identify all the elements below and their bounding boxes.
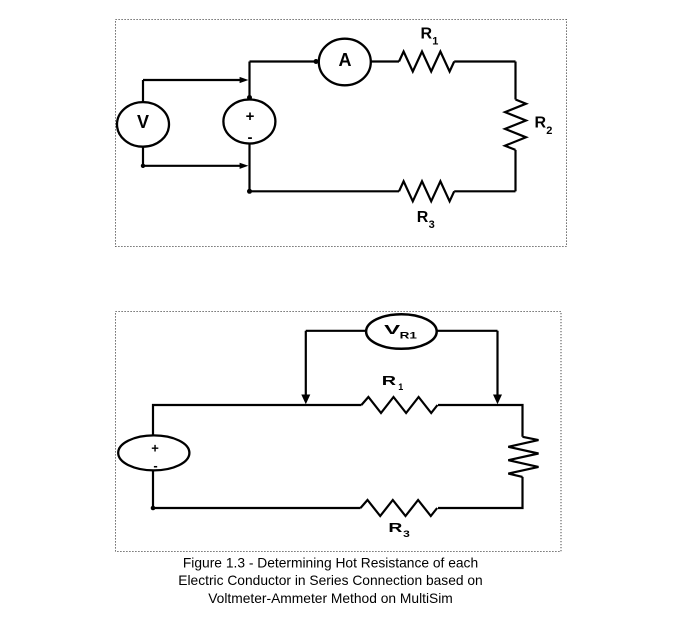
svg-text:V: V — [137, 112, 149, 132]
resistor R2 vertical zigzag bottom circuit — [508, 437, 538, 477]
svg-text:R: R — [421, 26, 433, 43]
wire ammeter to R1 — [371, 60, 399, 62]
ammeter A circle — [319, 39, 371, 86]
junction dot V bottom corner — [141, 164, 145, 168]
resistor R2 zigzag vertical — [505, 100, 526, 150]
svg-text:Electric Conductor in Series C: Electric Conductor in Series Connection … — [178, 573, 482, 588]
svg-text:-: - — [248, 129, 253, 146]
svg-text:+: + — [246, 108, 255, 125]
wire bottom right — [454, 190, 515, 192]
dashed border box top figure — [116, 20, 567, 247]
dashed border box bottom figure — [116, 312, 562, 552]
resistor R3 zigzag bottom circuit — [361, 500, 438, 516]
svg-text:R: R — [382, 373, 397, 388]
svg-text:V: V — [384, 322, 401, 337]
wire top: source node to ammeter — [250, 60, 320, 62]
svg-text:-: - — [153, 458, 157, 473]
svg-text:2: 2 — [546, 125, 552, 137]
svg-text:Voltmeter-Ammeter Method on Mu: Voltmeter-Ammeter Method on MultiSim — [208, 591, 453, 606]
wire VR1 left horizontal — [306, 330, 366, 332]
wire top left loop — [153, 405, 361, 436]
voltmeter VR1 ellipse — [366, 314, 437, 349]
wire source bottom vertical — [248, 144, 250, 192]
wire arrow line V-top to source node — [143, 79, 240, 81]
arrowhead into source node bottom — [240, 163, 249, 169]
svg-text:1: 1 — [398, 382, 403, 392]
svg-text:1: 1 — [432, 36, 438, 48]
wire right vertical upper — [514, 62, 516, 100]
junction dot before ammeter — [314, 59, 319, 64]
wire V top vertical — [142, 80, 144, 103]
wire VR1 right horizontal — [437, 330, 498, 332]
resistor R1 zigzag bottom circuit — [361, 397, 437, 413]
arrowhead into source node top — [240, 77, 249, 83]
wire bottom left to source — [250, 190, 400, 192]
svg-text:R1: R1 — [400, 330, 418, 341]
wire source top vertical — [248, 62, 250, 100]
wire right vertical lower — [438, 477, 523, 508]
junction dot source bottom corner — [247, 189, 252, 194]
resistor R1 zigzag — [399, 52, 454, 72]
junction dot bottom-left corner — [151, 506, 156, 511]
wire bottom left — [153, 507, 361, 509]
svg-text:Figure 1.3 - Determining Hot R: Figure 1.3 - Determining Hot Resistance … — [183, 556, 478, 571]
wire left probe vertical — [305, 331, 307, 396]
arrowhead right probe — [493, 395, 502, 405]
wire left vertical lower — [152, 471, 154, 509]
wire arrow line V-bottom to source node — [143, 165, 240, 167]
arrowhead left probe — [301, 395, 310, 405]
svg-text:+: + — [151, 441, 159, 456]
svg-text:R: R — [388, 520, 403, 535]
wire R1 to top-right corner — [454, 60, 515, 62]
svg-text:3: 3 — [429, 219, 435, 231]
voltmeter V circle — [117, 102, 169, 147]
svg-text:R: R — [535, 114, 547, 131]
wire R1 to right corner — [438, 405, 523, 437]
wire right probe vertical — [496, 331, 498, 396]
svg-text:A: A — [339, 50, 352, 70]
resistor R3 zigzag — [399, 181, 454, 201]
junction dot source top — [247, 95, 252, 100]
wire right vertical lower — [514, 150, 516, 191]
svg-text:R: R — [417, 209, 429, 226]
wire V bottom vertical — [142, 147, 144, 166]
source ellipse bottom circuit — [118, 435, 189, 470]
source circle top circuit — [223, 100, 275, 144]
svg-text:3: 3 — [403, 529, 410, 540]
